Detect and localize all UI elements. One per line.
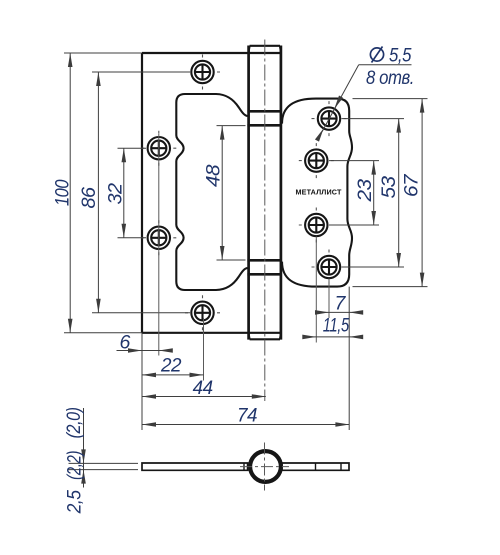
svg-text:100: 100 bbox=[52, 179, 74, 206]
svg-text:67: 67 bbox=[401, 173, 423, 197]
hole diameter callout leader bbox=[315, 65, 412, 142]
dimension 11,5 bbox=[302, 315, 363, 340]
svg-text:74: 74 bbox=[237, 405, 258, 427]
thickness dimension line bbox=[81, 408, 86, 488]
extension line right wing edge bbox=[348, 287, 350, 430]
barrel knuckle split lines bbox=[247, 111, 282, 274]
dimension 53 bbox=[342, 119, 405, 267]
side view plate bar right bbox=[282, 463, 349, 470]
svg-text:7: 7 bbox=[335, 293, 347, 315]
inner contour of folded wing (recess) bbox=[176, 94, 247, 290]
svg-text:53: 53 bbox=[378, 176, 400, 199]
svg-text:44: 44 bbox=[193, 377, 214, 399]
dimension 32 bbox=[105, 148, 147, 238]
svg-text:11,5: 11,5 bbox=[323, 315, 349, 337]
svg-text:(2,2): (2,2) bbox=[64, 451, 86, 480]
dimension 44 bbox=[142, 377, 266, 399]
hole L2 bbox=[141, 131, 176, 166]
left leaf plate outline bbox=[142, 53, 281, 333]
dimension 23 bbox=[329, 161, 379, 225]
extension line hole column x203 bbox=[203, 318, 205, 381]
thickness extension lines bbox=[69, 463, 139, 469]
barrel centerline bbox=[264, 40, 266, 402]
hole R2 bbox=[299, 143, 334, 178]
right leaf wing outline bbox=[282, 99, 352, 287]
dimension 67 bbox=[353, 99, 428, 287]
hole R1 top bbox=[312, 101, 347, 136]
svg-text:48: 48 bbox=[203, 164, 225, 187]
svg-text:32: 32 bbox=[105, 183, 127, 205]
svg-text:86: 86 bbox=[78, 187, 100, 209]
extension line hole R3 column bbox=[315, 237, 317, 343]
hole R4 bottom bbox=[312, 250, 347, 285]
svg-text:МЕТАЛЛИСТ: МЕТАЛЛИСТ bbox=[295, 188, 341, 197]
side view barrel circle bbox=[240, 443, 289, 491]
dimension 48 bbox=[203, 126, 246, 260]
dimension 7 bbox=[315, 293, 363, 315]
hinge barrel bbox=[249, 46, 281, 340]
hole L4 bottom bbox=[185, 295, 220, 330]
extension line hole column x159 bbox=[158, 134, 160, 356]
hole L1 top bbox=[185, 55, 220, 90]
diameter symbol bbox=[370, 47, 383, 63]
svg-text:2,5: 2,5 bbox=[64, 490, 86, 514]
svg-text:8 отв.: 8 отв. bbox=[366, 67, 414, 89]
dimension 6 bbox=[117, 332, 173, 354]
dimension 100 bbox=[52, 53, 143, 333]
extension line left plate edge bbox=[141, 333, 143, 430]
hole L3 bbox=[141, 220, 176, 255]
svg-text:22: 22 bbox=[160, 355, 182, 377]
extension line hole R4 column bbox=[328, 279, 330, 319]
side view plate bar left bbox=[142, 463, 248, 470]
svg-text:23: 23 bbox=[354, 179, 376, 203]
hole R3 bbox=[299, 208, 334, 243]
svg-text:5,5: 5,5 bbox=[389, 45, 412, 67]
dimension 74 bbox=[142, 405, 349, 427]
svg-text:6: 6 bbox=[120, 332, 131, 354]
svg-text:(2,0): (2,0) bbox=[63, 407, 85, 438]
dimension 22 bbox=[142, 355, 204, 378]
dimension 86 bbox=[78, 72, 190, 313]
